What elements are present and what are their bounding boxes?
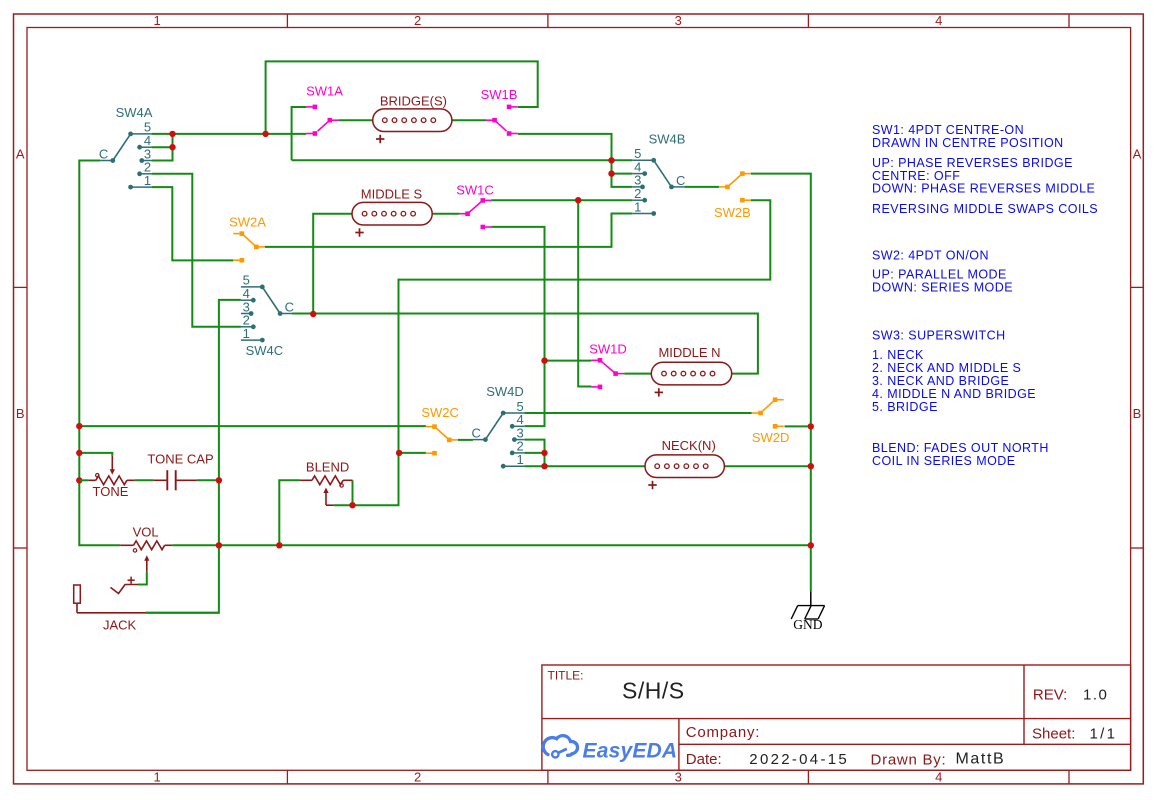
wire SW1B bottom to SW4B pins <box>518 134 633 187</box>
svg-text:4. MIDDLE N AND BRIDGE: 4. MIDDLE N AND BRIDGE <box>872 387 1036 401</box>
switch SW1B <box>481 87 518 136</box>
potentiometer TONE <box>88 456 134 499</box>
svg-text:2. NECK AND MIDDLE S: 2. NECK AND MIDDLE S <box>872 361 1021 375</box>
junction <box>808 423 814 429</box>
switch SW4D <box>472 384 525 469</box>
svg-text:1: 1 <box>634 199 641 214</box>
potentiometer VOL <box>120 524 172 571</box>
svg-text:DRAWN IN CENTRE POSITION: DRAWN IN CENTRE POSITION <box>872 136 1064 150</box>
wire SW4D pin2 stub <box>525 452 545 454</box>
switch SW4C <box>241 273 294 359</box>
wire SW4A pin1 to SW2A bottom <box>152 187 233 260</box>
ground GND <box>791 591 824 632</box>
wire jack sleeve line <box>146 612 219 614</box>
wire NECK right to gnd rail <box>724 465 810 467</box>
svg-text:4: 4 <box>935 13 942 28</box>
wire SW1D common to MIDDLE N left <box>624 373 651 375</box>
svg-text:COIL IN SERIES MODE: COIL IN SERIES MODE <box>872 454 1016 468</box>
wire SW4C pin4 riser down <box>146 300 241 613</box>
svg-text:3: 3 <box>675 13 682 28</box>
frame column ticks bottom <box>287 770 1069 784</box>
svg-text:A: A <box>1133 147 1142 162</box>
wire SW2C bottom stub <box>399 452 426 454</box>
svg-text:DOWN: PHASE REVERSES MIDDLE: DOWN: PHASE REVERSES MIDDLE <box>872 182 1095 196</box>
svg-text:1: 1 <box>153 13 160 28</box>
wire TONE left <box>79 479 88 481</box>
junction <box>541 463 547 469</box>
wire BRIDGE left lead <box>338 119 372 121</box>
svg-text:C: C <box>472 426 481 441</box>
svg-text:SW1C: SW1C <box>456 183 494 198</box>
wire SW1C top to SW4B pin2 <box>491 199 632 201</box>
wire node to SW4B pin5 <box>292 159 633 161</box>
svg-text:2022-04-15: 2022-04-15 <box>749 751 849 768</box>
svg-text:MattB: MattB <box>956 751 1006 768</box>
wire SW2A common to SW4B pin1 <box>265 214 632 247</box>
wire SW4A common to left rail <box>79 161 120 546</box>
wire MIDDLE S right lead <box>432 213 459 215</box>
junction <box>541 450 547 456</box>
switch SW1D <box>589 342 627 390</box>
wire BLEND left drop <box>279 480 299 545</box>
wire SW4C common to MIDDLE N right <box>292 314 758 374</box>
svg-text:BRIDGE(S): BRIDGE(S) <box>380 94 447 109</box>
svg-text:UP: PARALLEL MODE: UP: PARALLEL MODE <box>872 268 1007 282</box>
junction <box>76 450 82 456</box>
wire SW2B bottom loop <box>353 200 771 505</box>
svg-text:B: B <box>1133 406 1142 421</box>
junction <box>808 463 814 469</box>
svg-text:MIDDLE S: MIDDLE S <box>361 186 423 201</box>
wire SW4A pins345 bus <box>152 133 306 135</box>
svg-text:MIDDLE N: MIDDLE N <box>658 345 720 360</box>
svg-text:SW1B: SW1B <box>481 87 518 102</box>
switch SW1C <box>456 183 494 230</box>
wire VOL wiper to jack tip <box>138 572 147 585</box>
wire TONE wiper tap <box>79 453 112 456</box>
pickup BRIDGE(S) <box>373 94 452 144</box>
frame column labels <box>153 13 942 784</box>
junction <box>541 357 547 363</box>
potentiometer BLEND <box>300 459 353 505</box>
wire SW2C common to SW4D common <box>458 439 473 441</box>
wire SW4D pin1 to NECK left <box>525 465 645 467</box>
junction <box>808 542 814 548</box>
junction <box>310 311 316 317</box>
junction <box>169 131 175 137</box>
wire SW1C bottom to SW4D pin4 <box>491 227 544 426</box>
svg-text:SW1A: SW1A <box>306 84 343 99</box>
junction <box>76 423 82 429</box>
svg-text:4: 4 <box>935 770 942 785</box>
junction <box>76 477 82 483</box>
wire SW4B common to SW2B common <box>684 186 719 188</box>
switch SW2D <box>752 397 790 445</box>
node annotation notes <box>872 123 1098 468</box>
svg-text:SW1D: SW1D <box>589 342 627 357</box>
frame row ticks left <box>14 287 28 548</box>
svg-text:JACK: JACK <box>103 617 137 632</box>
junction <box>276 542 282 548</box>
svg-text:TONE: TONE <box>93 484 129 499</box>
svg-text:3. NECK AND BRIDGE: 3. NECK AND BRIDGE <box>872 374 1009 388</box>
wire SW4B pin2 to SW1D bottom <box>578 200 591 386</box>
svg-text:1: 1 <box>516 452 523 467</box>
wire MIDDLE S left lead riser <box>313 214 352 314</box>
wire left rail to SW2C top <box>79 425 426 427</box>
junction <box>349 502 355 508</box>
svg-text:SW3: SUPERSWITCH: SW3: SUPERSWITCH <box>872 328 1006 342</box>
svg-text:C: C <box>676 173 685 188</box>
wire SW4A pin2 to SW4C pin2 <box>152 174 241 327</box>
wire SW1A top to node <box>292 107 307 160</box>
pickup MIDDLE N <box>651 345 731 396</box>
svg-text:SW4D: SW4D <box>486 384 524 399</box>
svg-text:SW4A: SW4A <box>116 105 153 120</box>
switch SW2B <box>714 171 751 220</box>
svg-text:TONE CAP: TONE CAP <box>147 451 213 466</box>
junction <box>169 144 175 150</box>
svg-text:SW4C: SW4C <box>246 343 284 358</box>
svg-text:1: 1 <box>243 326 250 341</box>
wire top loop to SW1B <box>266 61 538 133</box>
svg-text:REV:: REV: <box>1033 687 1067 704</box>
wire BLEND wiper tap <box>334 504 353 506</box>
jack JACK <box>74 577 146 633</box>
frame row ticks right <box>1131 287 1144 548</box>
svg-text:SW2B: SW2B <box>714 205 751 220</box>
svg-text:SW2: 4PDT ON/ON: SW2: 4PDT ON/ON <box>872 249 989 263</box>
svg-text:1.0: 1.0 <box>1083 687 1108 704</box>
switch SW4A <box>99 105 153 190</box>
junction <box>608 170 614 176</box>
junction <box>575 197 581 203</box>
svg-text:SW4B: SW4B <box>649 132 686 147</box>
title block <box>542 665 1131 770</box>
wire SW4B pin4 stub <box>612 173 633 175</box>
wire TONE right <box>135 479 154 481</box>
svg-text:SW1: 4PDT CENTRE-ON: SW1: 4PDT CENTRE-ON <box>872 123 1024 137</box>
svg-text:1: 1 <box>153 770 160 785</box>
svg-text:2: 2 <box>414 13 421 28</box>
wire SW4D pin5 to SW2D common <box>525 412 752 414</box>
svg-text:REVERSING MIDDLE SWAPS COILS: REVERSING MIDDLE SWAPS COILS <box>872 202 1098 216</box>
switch SW2C <box>421 405 459 455</box>
svg-text:5. BRIDGE: 5. BRIDGE <box>872 400 938 414</box>
frame column ticks top <box>287 14 1069 28</box>
svg-text:2: 2 <box>414 770 421 785</box>
switch SW2A <box>229 215 266 263</box>
junction <box>216 477 222 483</box>
svg-text:GND: GND <box>793 617 822 632</box>
capacitor TONE CAP <box>147 451 213 490</box>
svg-text:3: 3 <box>675 770 682 785</box>
svg-text:NECK(N): NECK(N) <box>662 438 716 453</box>
junction <box>216 542 222 548</box>
svg-text:Company:: Company: <box>686 724 760 741</box>
svg-text:TITLE:: TITLE: <box>548 669 584 683</box>
svg-text:1: 1 <box>144 173 151 188</box>
junction <box>608 157 614 163</box>
wire SW4A pin3 riser <box>152 134 173 161</box>
svg-text:A: A <box>16 147 25 162</box>
EasyEDA logo <box>543 736 677 763</box>
wire BLEND right terminal drop <box>352 480 354 505</box>
wire SW4D pin3 link <box>525 440 545 467</box>
svg-text:B: B <box>16 406 25 421</box>
svg-text:1. NECK: 1. NECK <box>872 348 924 362</box>
svg-text:VOL: VOL <box>133 524 159 539</box>
svg-text:Sheet:: Sheet: <box>1032 726 1075 743</box>
frame row labels <box>16 147 1142 422</box>
switch SW1A <box>306 84 343 136</box>
svg-text:Date:: Date: <box>686 751 722 768</box>
wire SW4A pin4 stub <box>152 146 173 148</box>
pickup NECK(N) <box>645 438 724 489</box>
wire BRIDGE right lead <box>452 119 486 121</box>
svg-text:DOWN: SERIES MODE: DOWN: SERIES MODE <box>872 281 1013 295</box>
pickup MIDDLE S <box>352 186 432 236</box>
wire SW1D top tap <box>545 360 592 362</box>
wire SW2B top to gnd rail <box>751 174 811 592</box>
svg-text:SW2A: SW2A <box>229 215 266 230</box>
wire VOL line <box>172 544 811 546</box>
svg-text:EasyEDA: EasyEDA <box>583 740 678 763</box>
svg-text:1/1: 1/1 <box>1090 726 1118 743</box>
svg-text:UP: PHASE REVERSES BRIDGE: UP: PHASE REVERSES BRIDGE <box>872 156 1073 170</box>
junction <box>262 131 268 137</box>
junction <box>396 450 402 456</box>
svg-text:BLEND: FADES OUT NORTH: BLEND: FADES OUT NORTH <box>872 441 1049 455</box>
svg-text:C: C <box>285 300 294 315</box>
switch SW4B <box>632 132 685 216</box>
svg-text:SW2C: SW2C <box>421 405 459 420</box>
svg-text:BLEND: BLEND <box>306 459 349 474</box>
svg-text:S/H/S: S/H/S <box>622 678 685 704</box>
svg-text:Drawn By:: Drawn By: <box>871 752 947 769</box>
svg-text:C: C <box>99 147 108 162</box>
wire TONE cap to riser <box>197 479 219 481</box>
wire SW2D bottom to gnd rail <box>785 425 811 427</box>
svg-text:SW2D: SW2D <box>752 430 790 445</box>
